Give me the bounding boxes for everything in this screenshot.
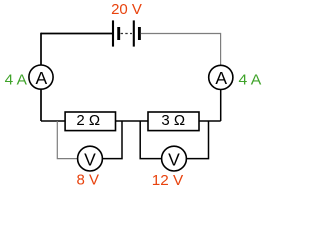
voltmeter VM2 <box>162 146 187 171</box>
battery short plate 2 <box>138 27 141 40</box>
wire voltmeter VM2 left branch <box>140 121 161 159</box>
svg-text:3 Ω: 3 Ω <box>161 112 185 129</box>
battery V1 <box>113 20 139 46</box>
ammeter A2 <box>209 65 233 89</box>
resistor R1 (2 ohm) <box>65 112 115 131</box>
wire bottom main (left rail to right rail through resistors) <box>41 120 221 122</box>
svg-text:4 A: 4 A <box>5 72 27 89</box>
wire top-right segment (battery to right rail) <box>141 33 221 35</box>
wire voltmeter VM1 left branch <box>57 121 77 159</box>
resistor R2 (3 ohm) <box>148 112 199 131</box>
svg-text:4 A: 4 A <box>239 72 262 89</box>
svg-text:V: V <box>168 150 180 170</box>
wire top-left segment (left rail to battery) <box>41 33 112 35</box>
battery long plate 1 <box>112 20 114 46</box>
svg-text:A: A <box>215 68 227 88</box>
ammeter A1 <box>29 65 53 89</box>
wire left rail upper (corner to ammeter A1) <box>40 33 42 65</box>
svg-text:8 V: 8 V <box>77 172 100 189</box>
svg-text:20 V: 20 V <box>111 1 142 18</box>
battery dashed middle link <box>121 33 132 35</box>
svg-text:2 Ω: 2 Ω <box>76 112 100 129</box>
wire right rail lower (ammeter A2 to bottom wire) <box>220 90 222 122</box>
wire voltmeter VM2 right branch <box>187 121 209 159</box>
voltmeter VM1 <box>78 146 103 171</box>
wire left rail lower (ammeter A1 to bottom wire) <box>40 89 42 121</box>
battery long plate 2 <box>133 20 135 46</box>
svg-text:V: V <box>84 150 96 170</box>
svg-text:12 V: 12 V <box>152 172 183 189</box>
wire voltmeter VM1 right branch <box>102 121 122 159</box>
battery short plate 1 <box>117 27 120 40</box>
svg-text:A: A <box>36 68 48 88</box>
wire right rail upper (corner to ammeter A2) <box>220 33 222 66</box>
